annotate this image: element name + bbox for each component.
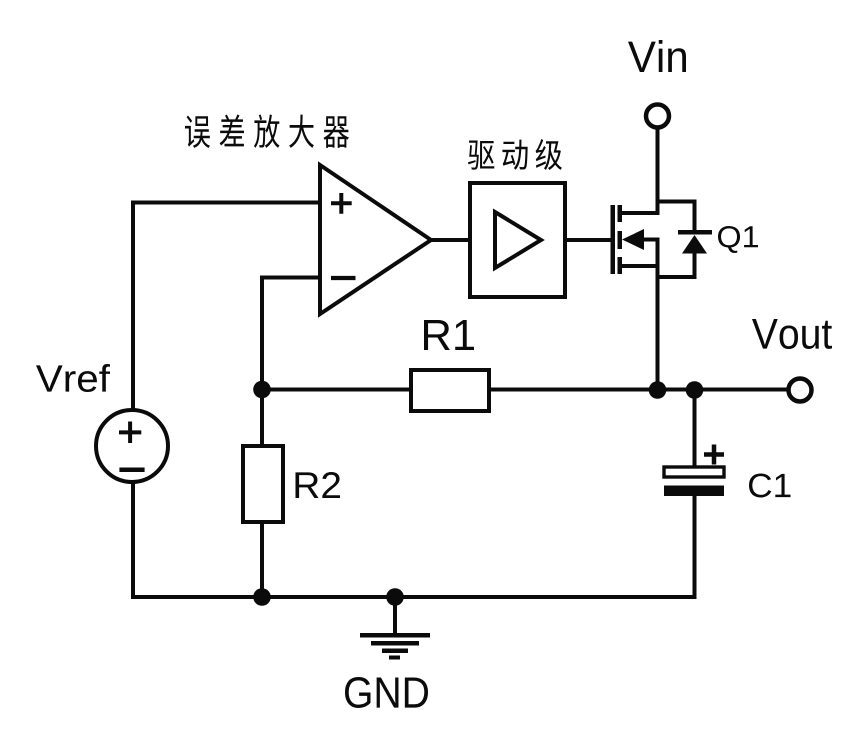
ground bars xyxy=(360,633,430,638)
voltage source Vref circle xyxy=(96,410,168,482)
wire + input (Vref to op-amp +) xyxy=(133,203,320,410)
body diode top branch xyxy=(658,202,695,231)
junction dot C1 node xyxy=(686,381,704,399)
wire feedback node to R1 xyxy=(262,388,411,392)
terminal Vout circle xyxy=(789,379,812,402)
junction dot source/Vout node xyxy=(649,381,667,399)
label GND xyxy=(345,677,428,708)
label C1 xyxy=(749,474,791,498)
transistor Q1 body tap xyxy=(640,238,660,242)
label R2 xyxy=(295,472,340,498)
Vref minus symbol xyxy=(119,468,144,473)
wire C1 top lead xyxy=(693,390,697,468)
driver stage box xyxy=(470,183,565,297)
resistor R1 box xyxy=(411,370,489,411)
driver buffer triangle xyxy=(495,212,541,268)
wire source down to Vout node xyxy=(656,240,660,391)
body diode triangle xyxy=(682,235,707,254)
wire feedback node to R2 xyxy=(260,390,264,447)
wire op-amp output to driver xyxy=(431,238,470,242)
terminal Vin circle xyxy=(646,105,669,128)
transistor Q1 channel segments xyxy=(618,205,623,222)
body diode cathode bar xyxy=(678,230,712,235)
capacitor C1 plus symbol xyxy=(704,445,724,465)
op-amp minus input symbol xyxy=(331,276,356,280)
junction dot feedback/R2 node xyxy=(253,381,271,399)
wire Vin terminal to drain xyxy=(656,130,660,214)
transistor Q1 gate bar xyxy=(611,205,616,274)
label Vout xyxy=(752,319,832,349)
wire - input (feedback node to op-amp -) xyxy=(262,278,320,390)
wire Vref bottom to ground rail xyxy=(133,483,697,597)
wire driver output to gate xyxy=(565,238,611,242)
label error amplifier (Chinese) xyxy=(185,114,349,148)
body diode bottom branch xyxy=(658,254,695,278)
capacitor C1 bottom plate xyxy=(664,486,724,497)
transistor Q1 body arrow xyxy=(622,229,644,250)
op-amp plus input symbol xyxy=(331,193,352,214)
op-amp error amplifier xyxy=(320,165,431,314)
capacitor C1 top plate xyxy=(664,467,724,477)
wire C1 bottom lead xyxy=(693,496,697,597)
label Vref xyxy=(36,364,110,392)
transistor Q1 drain tap xyxy=(620,211,660,215)
junction dot R2 ground node xyxy=(253,588,271,606)
wire R2 to ground rail xyxy=(260,522,264,597)
resistor R2 box xyxy=(243,446,283,522)
label driver stage (Chinese) xyxy=(468,139,562,170)
Vref plus symbol xyxy=(119,422,141,444)
label Vin xyxy=(628,40,686,72)
wire R1 to Vout terminal xyxy=(489,388,788,392)
wire GND stem xyxy=(393,597,397,634)
junction dot GND node xyxy=(386,588,404,606)
label Q1 xyxy=(718,226,758,253)
transistor Q1 source tap xyxy=(620,264,658,268)
label R1 xyxy=(424,320,474,350)
